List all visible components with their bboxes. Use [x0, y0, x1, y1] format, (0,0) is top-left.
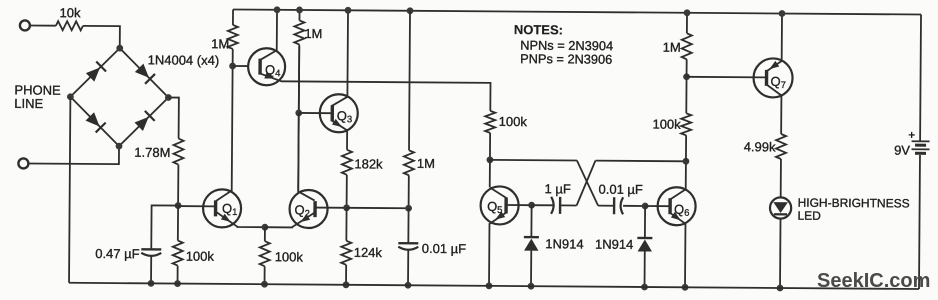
- diode D4 1N4004 (bottom-right edge): [134, 111, 155, 132]
- wire Q6 collector to X node right: [685, 161, 687, 189]
- wire rail to battery: [919, 15, 922, 141]
- svg-text:100k: 100k: [499, 114, 528, 129]
- wire top supply rail: [233, 9, 921, 14]
- capacitor 0.01uF second plates: [613, 197, 616, 214]
- wire Q3 emitter: [331, 120, 347, 150]
- arrow Q3 emitter: [332, 119, 344, 130]
- wire 1.78M to node A: [177, 165, 179, 206]
- wire 100k fourth to X node right: [685, 135, 687, 161]
- wire Q7 base: [687, 76, 767, 79]
- diode D2 1N4004 (top-right edge): [134, 63, 155, 84]
- wire bridge edge top-left: [70, 48, 119, 97]
- wire 0.47uF to ground rail: [150, 256, 152, 283]
- transistor Q4: [248, 48, 285, 85]
- wire Q6 emitter: [670, 213, 686, 287]
- terminal T1 (phone line tip): [20, 20, 30, 30]
- svg-text:1M: 1M: [417, 156, 435, 171]
- wire 182k to Q2 base node: [346, 175, 348, 208]
- wire 1M second to Q3 base node: [298, 44, 301, 112]
- wire Q5 base: [507, 204, 531, 206]
- junction Q7 base node: [683, 73, 690, 80]
- wire 100k to ground rail: [177, 266, 179, 284]
- wire Q3 collector: [331, 10, 348, 106]
- wire Q4 collector: [261, 10, 277, 60]
- wire Q2 base: [315, 207, 346, 209]
- wire 10k to bridge top: [83, 26, 120, 48]
- resistor 100k (Q1 base): [173, 241, 183, 266]
- svg-text:0.01 µF: 0.01 µF: [598, 182, 643, 197]
- wire rail to 1M third: [409, 11, 410, 150]
- junction X node left: [487, 156, 494, 163]
- wire 100k fourth to Q7 base node: [685, 77, 687, 113]
- arrow Q6 emitter: [671, 212, 683, 223]
- wire Q2 collector to Q3 base node: [297, 113, 300, 190]
- transistor Q7 (PNP): [753, 58, 792, 97]
- svg-text:182k: 182k: [354, 156, 383, 171]
- junction bridge right node: [165, 94, 172, 101]
- junction Q5 base node: [528, 202, 535, 209]
- wire Q1 emitter: [216, 212, 265, 227]
- diode 1N914 first: [530, 205, 532, 237]
- wire Q7 emitter diag: [767, 61, 782, 71]
- resistor 10k: [56, 21, 83, 30]
- transistor Q1: [203, 189, 241, 227]
- svg-text:LINE: LINE: [14, 96, 43, 111]
- junction Q2 base node: [343, 204, 350, 211]
- junction emitter node Q1-Q2: [262, 224, 269, 231]
- LED D5 high-brightness: [770, 197, 791, 218]
- junction RC node: [405, 205, 412, 212]
- wire rail to 1M fourth: [686, 13, 688, 33]
- capacitor 0.01uF first plates: [398, 242, 418, 245]
- junction bridge bottom node: [116, 143, 123, 150]
- wire node A to 100k: [177, 206, 179, 241]
- wire Q7 emitter to rail: [781, 13, 783, 60]
- wire Q5 emitter: [489, 212, 507, 286]
- wire X node left to Q5 collector: [489, 160, 491, 187]
- resistor 182k: [342, 150, 352, 175]
- wire RC node to 0.01uF: [407, 208, 409, 243]
- wire rail to 1M second: [298, 10, 300, 20]
- resistor 1M fourth: [682, 33, 692, 59]
- junction rail Q4 collector: [274, 6, 281, 13]
- wire Q5 collector diag: [490, 188, 507, 199]
- wire Q2 base node to RC node: [347, 207, 409, 209]
- wire Q1 collector: [216, 66, 232, 201]
- wire T1 to 10k: [30, 24, 56, 26]
- diode D1 1N4004 (left-top edge): [85, 62, 106, 83]
- arrow Q4 emitter: [264, 72, 275, 82]
- transistor Q6: [657, 187, 695, 225]
- wire 1M fourth to Q7 base node: [686, 59, 688, 76]
- wire bridge edge top-right: [119, 48, 168, 97]
- wire X lower-right to 0.01uF: [598, 205, 614, 207]
- svg-text:0.01 µF: 0.01 µF: [422, 241, 467, 256]
- resistor 100k (emitters): [260, 241, 270, 266]
- junction 100k ground: [174, 280, 181, 287]
- svg-text:LED: LED: [797, 209, 821, 223]
- resistor 1M third: [404, 150, 414, 175]
- arrow Q1 emitter: [221, 214, 233, 225]
- resistor 1M first: [228, 25, 238, 49]
- wire Q3 base: [299, 112, 331, 114]
- svg-text:1 µF: 1 µF: [545, 181, 571, 196]
- resistor 100k fourth: [681, 113, 691, 135]
- junction 124k ground: [343, 281, 350, 288]
- wire Q2 base node to 124k: [345, 208, 347, 241]
- watermark SeekIC.com: [817, 270, 930, 293]
- junction bridge top node: [116, 45, 123, 52]
- wire bridge right node to 1.78M: [168, 97, 179, 138]
- svg-text:1N914: 1N914: [595, 237, 633, 252]
- arrow Q5 emitter: [493, 211, 505, 222]
- svg-text:1N914: 1N914: [545, 236, 583, 251]
- wire Q6 base: [645, 205, 670, 207]
- junction LED ground: [777, 285, 784, 292]
- resistor 100k third: [485, 111, 495, 133]
- junction X node right: [683, 158, 690, 165]
- transistor Q3: [320, 94, 358, 132]
- wire Q4 base: [233, 65, 248, 67]
- wire Q6 collector diag: [671, 189, 686, 199]
- junction Q5 emitter ground: [486, 282, 493, 289]
- wire T2 to bridge bottom: [28, 145, 119, 164]
- wire node A to 0.47uF: [151, 205, 178, 249]
- transistor Q2: [289, 190, 327, 228]
- junction node A (Q1 base): [175, 202, 182, 209]
- wire 0.01uF second to Q6 base node: [623, 205, 645, 207]
- junction 100k emitters ground: [261, 281, 268, 288]
- wire X diag up (to Q6 side): [577, 160, 596, 205]
- svg-text:+: +: [908, 128, 915, 142]
- wire 100k third to X node left: [489, 133, 491, 160]
- junction bridge left node: [67, 93, 74, 100]
- junction rail 1M fourth: [684, 9, 691, 16]
- svg-text:Q3: Q3: [337, 108, 353, 125]
- junction rail 1M second: [296, 7, 303, 14]
- junction rail Q3 collector: [345, 7, 352, 14]
- transistor Q5: [480, 186, 518, 224]
- wire X upper-right horizontal: [595, 160, 685, 163]
- svg-text:100k: 100k: [275, 249, 304, 264]
- svg-text:1M: 1M: [211, 36, 229, 51]
- svg-text:9V: 9V: [894, 143, 910, 158]
- svg-text:100k: 100k: [652, 117, 681, 132]
- junction 1N914 first ground: [528, 283, 535, 290]
- wire 1M to Q4 base node: [232, 49, 234, 66]
- svg-text:1N4004 (x4): 1N4004 (x4): [148, 52, 220, 68]
- wire 124k to ground: [345, 265, 347, 285]
- junction rail 1M third: [407, 7, 414, 14]
- svg-text:0.47 µF: 0.47 µF: [95, 246, 140, 261]
- wire emitter node to 100k: [264, 227, 266, 241]
- terminal T2 (phone line ring): [18, 158, 28, 168]
- svg-text:124k: 124k: [354, 245, 383, 260]
- wire 1uF to X lower-left: [560, 204, 576, 206]
- junction Q3 base node: [295, 110, 302, 117]
- wire bridge edge bottom-right: [119, 97, 168, 146]
- junction 0.01uF ground: [405, 282, 412, 289]
- wire Q4 emitter to 100k third: [260, 74, 490, 111]
- wire 100k emitters to ground: [264, 266, 266, 284]
- svg-text:PNPs = 2N3906: PNPs = 2N3906: [520, 51, 612, 67]
- arrow Q7 emitter (PNP, points to base): [767, 61, 779, 72]
- wire LED to ground rail: [779, 219, 782, 288]
- junction Q4 base node: [229, 63, 236, 70]
- capacitor 0.47uF plates: [141, 248, 161, 251]
- wire bridge edge bottom-left: [70, 97, 119, 146]
- junction rail Q7: [779, 10, 786, 17]
- wire Q7 collector: [767, 85, 782, 134]
- wire bridge left node to ground rail: [69, 97, 70, 283]
- diode 1N914 second: [644, 206, 646, 238]
- wire 1M third to RC node: [408, 175, 410, 208]
- wire rail corner to 1M: [232, 9, 234, 24]
- svg-text:4.99k: 4.99k: [744, 139, 776, 154]
- wire 4.99k to LED: [780, 159, 782, 197]
- wire battery to ground rail: [918, 155, 921, 289]
- junction 1N914 second ground: [641, 284, 648, 291]
- wire X upper-left horizontal: [490, 159, 577, 162]
- wire ground rail: [69, 283, 919, 289]
- resistor 124k: [341, 241, 351, 265]
- resistor 1M second: [294, 20, 304, 44]
- diode D3 1N4004 (left-bottom edge): [85, 112, 106, 133]
- wire node A to Q1 base: [178, 205, 215, 207]
- junction Q6 base node: [642, 203, 649, 210]
- resistor 1.78M: [173, 139, 183, 165]
- wire Q5 base node to 1uF: [532, 204, 555, 206]
- svg-text:1M: 1M: [304, 26, 322, 41]
- svg-text:NOTES:: NOTES:: [514, 22, 563, 37]
- svg-text:1M: 1M: [663, 40, 681, 55]
- svg-text:1.78M: 1.78M: [134, 145, 170, 160]
- wire Q2 collector: [298, 46, 316, 200]
- svg-text:10k: 10k: [59, 5, 81, 20]
- battery B1 9V: [912, 140, 930, 142]
- wire Q2 emitter: [265, 212, 315, 227]
- wire 0.01uF to ground: [407, 250, 409, 285]
- capacitor 1uF plates: [551, 197, 554, 214]
- junction Q6 emitter ground: [682, 284, 689, 291]
- arrow Q2 emitter: [298, 214, 310, 225]
- wire X diag down (to Q6 base cap): [577, 160, 599, 205]
- junction 0.47uF ground: [148, 280, 155, 287]
- svg-text:100k: 100k: [186, 249, 215, 264]
- resistor 4.99k: [776, 134, 786, 159]
